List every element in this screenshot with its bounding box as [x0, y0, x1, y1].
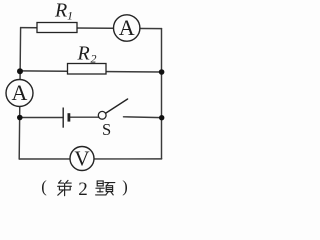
wire battery branch left: [20, 117, 63, 119]
svg-text:V: V: [74, 146, 89, 170]
caption (第 2 题): [41, 177, 128, 200]
battery cell: [63, 108, 69, 128]
node junction left battery: [17, 115, 23, 121]
svg-text:1: 1: [67, 9, 73, 23]
svg-text:): ): [122, 177, 128, 196]
caption glyph 题: [96, 181, 115, 195]
switch S: [98, 99, 127, 119]
caption glyph 第: [58, 180, 72, 195]
node junction right battery: [159, 115, 164, 120]
resistor R2: [68, 64, 107, 75]
wire right vertical: [161, 29, 163, 159]
voltmeter V: [70, 146, 94, 170]
svg-text:A: A: [119, 15, 135, 40]
svg-text:2: 2: [78, 179, 88, 200]
svg-text:A: A: [12, 80, 28, 105]
resistor R1: [37, 23, 77, 33]
ammeter A2 (left): [6, 80, 33, 107]
svg-text:R: R: [54, 0, 67, 22]
svg-text:S: S: [102, 120, 111, 139]
wire bottom branch: [19, 158, 161, 160]
wire left vertical: [19, 28, 20, 159]
node junction right R2: [159, 69, 165, 75]
wire top branch: [21, 28, 162, 29]
wire switch contact to right: [124, 116, 162, 119]
svg-text:2: 2: [91, 52, 97, 66]
wire battery to switch: [70, 116, 99, 118]
node junction left R2: [17, 68, 23, 74]
svg-text:R: R: [77, 43, 90, 65]
wire R2 branch: [20, 71, 162, 72]
ammeter A1 (top): [114, 15, 140, 41]
svg-text:(: (: [41, 177, 47, 196]
